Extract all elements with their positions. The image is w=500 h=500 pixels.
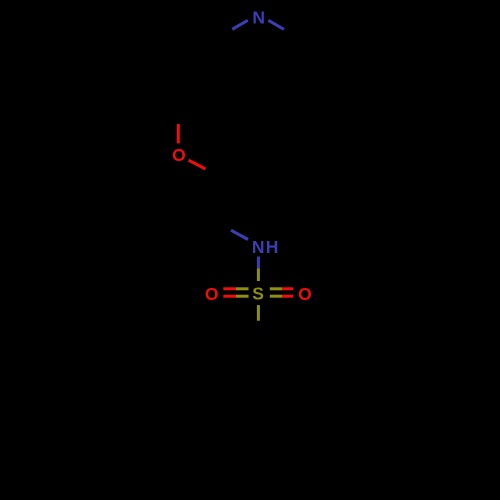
svg-text:N: N (252, 7, 265, 27)
wire: bond CH2-N2 (down-right, N half) (231, 230, 248, 239)
svg-text:O: O (172, 145, 186, 165)
wire: double bond S1=O2 lower line, O half (223, 295, 236, 298)
wire: double bond S1=O3 upper line, O half (282, 287, 293, 290)
wire: bond N2-S1 upper half (N colored) (257, 257, 260, 269)
wire: double bond S1=O2 upper line, S half (236, 287, 249, 290)
svg-text:H: H (266, 237, 279, 257)
wire: double bond S1=O2 upper line, O half (223, 287, 236, 290)
svg-text:O: O (205, 284, 219, 304)
wire: double bond S1=O3 lower line, S half (270, 295, 282, 298)
wire: bond N1-C2 (left half, N colored) (232, 20, 248, 29)
wire: bond N1-C6 (right half, N colored) (268, 20, 284, 29)
wire: bond C-O1 (vertical, O half) (177, 124, 180, 143)
svg-text:O: O (298, 284, 312, 304)
svg-text:N: N (252, 237, 265, 257)
wire: bond S1-C(phenyl) vertical (S half) (257, 305, 260, 321)
wire: bond O1-CH2 (down-right, O half) (189, 160, 206, 169)
atom N2 (sulfonamide NH) (252, 237, 279, 257)
wire: bond N2-S1 lower half (S colored) (257, 269, 260, 282)
svg-text:S: S (252, 284, 264, 304)
wire: double bond S1=O3 lower line, O half (282, 295, 293, 298)
wire: double bond S1=O2 lower line, S half (236, 295, 249, 298)
wire: double bond S1=O3 upper line, S half (270, 287, 282, 290)
